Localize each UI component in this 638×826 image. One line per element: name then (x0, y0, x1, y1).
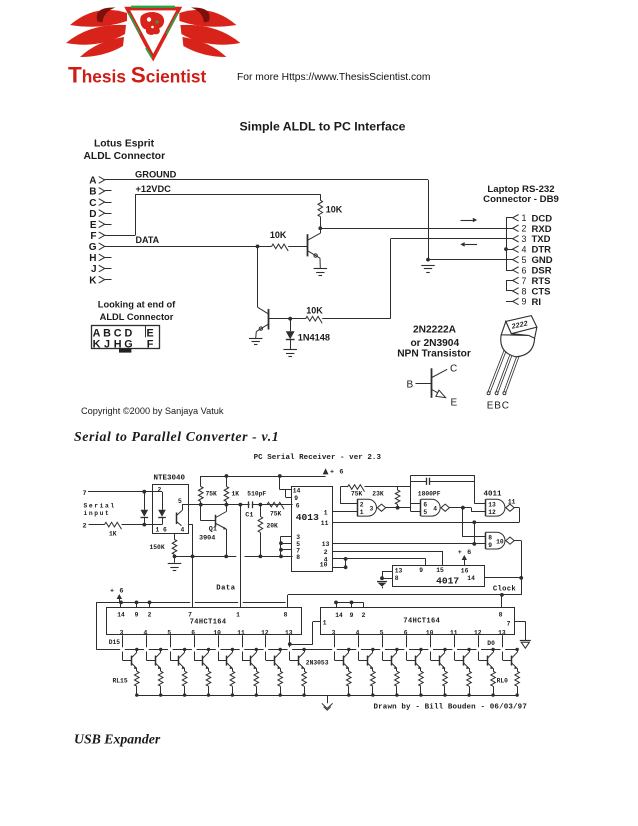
svg-text:Q1: Q1 (209, 526, 217, 534)
svg-text:9: 9 (294, 495, 298, 502)
svg-text:11: 11 (508, 498, 516, 505)
svg-text:B: B (494, 400, 501, 411)
svg-text:GROUND: GROUND (135, 169, 177, 179)
svg-text:PC Serial Receiver - ver 2.3: PC Serial Receiver - ver 2.3 (254, 454, 382, 462)
svg-text:5: 5 (423, 509, 427, 516)
svg-text:2: 2 (148, 611, 152, 618)
svg-text:12: 12 (474, 629, 482, 636)
svg-text:DCD: DCD (532, 213, 553, 224)
svg-text:10K: 10K (326, 204, 343, 214)
svg-text:1: 1 (323, 619, 327, 626)
svg-text:6: 6 (522, 265, 527, 275)
svg-text:1: 1 (324, 509, 328, 516)
svg-text:+ 6: + 6 (110, 587, 124, 595)
svg-text:2: 2 (522, 224, 527, 234)
svg-text:10: 10 (320, 562, 328, 569)
svg-text:D15: D15 (109, 639, 121, 646)
svg-text:4017: 4017 (436, 575, 459, 586)
svg-text:C: C (502, 400, 509, 411)
svg-text:B: B (407, 379, 414, 390)
svg-text:+ 6: + 6 (458, 549, 472, 557)
svg-text:2: 2 (158, 487, 162, 494)
svg-text:Drawn by - Bill Bouden - 06/03: Drawn by - Bill Bouden - 06/03/97 (374, 704, 527, 712)
svg-text:Copyright ©2000 by Sanjaya Vat: Copyright ©2000 by Sanjaya Vatuk (81, 406, 224, 416)
svg-text:Looking at end of: Looking at end of (98, 300, 176, 310)
svg-text:10: 10 (213, 629, 221, 636)
svg-text:K: K (93, 339, 101, 351)
svg-text:74HCT164: 74HCT164 (403, 618, 440, 626)
svg-text:For more Https://www.ThesisSci: For more Https://www.ThesisScientist.com (237, 72, 430, 83)
svg-text:K: K (89, 275, 97, 286)
svg-text:Simple ALDL to PC Interface: Simple ALDL to PC Interface (239, 120, 405, 134)
svg-text:RXD: RXD (532, 224, 552, 235)
svg-text:ALDL Connector: ALDL Connector (100, 312, 174, 322)
svg-text:12: 12 (488, 509, 496, 516)
svg-text:11: 11 (321, 520, 329, 527)
svg-text:4: 4 (356, 629, 360, 636)
svg-text:2N3053: 2N3053 (306, 659, 329, 666)
svg-text:3: 3 (296, 534, 300, 541)
svg-text:16: 16 (461, 567, 469, 574)
svg-text:Lotus Esprit: Lotus Esprit (94, 139, 155, 150)
svg-text:F: F (147, 339, 154, 351)
svg-text:RL0: RL0 (497, 677, 509, 684)
svg-text:2N2222A: 2N2222A (413, 325, 457, 336)
svg-text:2: 2 (360, 502, 364, 509)
svg-text:TXD: TXD (532, 234, 551, 245)
svg-text:75K: 75K (270, 511, 282, 518)
svg-text:13: 13 (322, 541, 330, 548)
svg-text:9: 9 (419, 567, 423, 574)
svg-text:+12VDC: +12VDC (136, 184, 172, 194)
svg-text:4011: 4011 (484, 490, 503, 498)
svg-text:RTS: RTS (532, 276, 551, 287)
svg-text:D: D (89, 209, 96, 220)
svg-text:11: 11 (450, 629, 458, 636)
svg-text:C: C (450, 363, 457, 374)
svg-text:1: 1 (522, 213, 527, 223)
svg-text:RL15: RL15 (113, 677, 128, 684)
svg-text:9: 9 (135, 611, 139, 618)
svg-text:510pF: 510pF (247, 491, 266, 498)
svg-text:4013: 4013 (296, 512, 319, 523)
svg-text:Connector - DB9: Connector - DB9 (483, 194, 559, 205)
svg-text:E: E (90, 220, 97, 231)
svg-text:9: 9 (488, 542, 492, 549)
svg-text:3: 3 (370, 506, 374, 513)
svg-text:13: 13 (488, 502, 496, 509)
svg-text:GND: GND (532, 255, 553, 266)
svg-text:13: 13 (285, 629, 293, 636)
svg-text:10: 10 (496, 539, 504, 546)
svg-text:10: 10 (426, 629, 434, 636)
svg-text:2: 2 (362, 612, 366, 619)
svg-text:15: 15 (436, 567, 444, 574)
svg-text:13: 13 (498, 629, 506, 636)
svg-text:9: 9 (522, 297, 527, 307)
svg-text:20K: 20K (267, 523, 279, 530)
svg-text:4: 4 (433, 506, 437, 513)
svg-text:10K: 10K (306, 306, 323, 316)
svg-text:Thesis Scientist: Thesis Scientist (68, 63, 207, 88)
svg-text:1N4148: 1N4148 (298, 333, 330, 343)
svg-text:74HCT164: 74HCT164 (190, 618, 227, 626)
svg-text:14: 14 (293, 487, 301, 494)
svg-text:8: 8 (499, 611, 503, 618)
svg-text:or 2N3904: or 2N3904 (410, 338, 459, 349)
svg-text:14: 14 (467, 575, 475, 582)
svg-text:6: 6 (296, 503, 300, 510)
svg-text:H: H (89, 253, 96, 264)
svg-text:ALDL Connector: ALDL Connector (83, 151, 165, 162)
svg-text:5: 5 (178, 498, 182, 505)
svg-text:3: 3 (120, 629, 124, 636)
svg-text:E: E (487, 400, 494, 411)
svg-text:E: E (451, 398, 458, 409)
svg-text:4: 4 (181, 527, 185, 534)
svg-text:G: G (89, 242, 97, 253)
svg-text:11: 11 (237, 629, 245, 636)
svg-text:7: 7 (188, 611, 192, 618)
svg-text:Clock: Clock (493, 586, 516, 594)
svg-text:7: 7 (522, 276, 527, 286)
svg-text:CTS: CTS (532, 286, 551, 297)
svg-text:7: 7 (507, 620, 511, 627)
svg-text:J: J (104, 339, 110, 351)
svg-text:3904: 3904 (199, 535, 215, 543)
svg-text:75K: 75K (351, 490, 363, 497)
svg-text:B: B (89, 187, 96, 198)
svg-text:1K: 1K (109, 530, 117, 537)
svg-text:8: 8 (488, 534, 492, 541)
svg-text:9: 9 (350, 612, 354, 619)
svg-text:6: 6 (404, 629, 408, 636)
svg-text:J: J (91, 264, 97, 275)
svg-text:8: 8 (522, 286, 527, 296)
svg-text:5: 5 (522, 255, 527, 265)
svg-text:75K: 75K (206, 491, 218, 498)
svg-text:1: 1 (236, 611, 240, 618)
svg-text:A: A (89, 176, 96, 187)
svg-text:1800PF: 1800PF (418, 490, 441, 497)
svg-text:NPN Transistor: NPN Transistor (397, 349, 471, 360)
svg-text:8: 8 (395, 575, 399, 582)
svg-text:1: 1 (360, 509, 364, 516)
svg-text:150K: 150K (150, 544, 165, 551)
svg-text:1 6: 1 6 (156, 527, 168, 534)
svg-text:8: 8 (284, 611, 288, 618)
svg-text:RI: RI (532, 297, 542, 308)
svg-text:1K: 1K (232, 491, 240, 498)
svg-text:C1: C1 (245, 512, 253, 520)
svg-text:+ 6: + 6 (330, 468, 344, 476)
svg-text:Serial to Parallel Converter -: Serial to Parallel Converter - v.1 (74, 429, 279, 444)
svg-text:5: 5 (380, 629, 384, 636)
svg-text:USB Expander: USB Expander (74, 732, 161, 747)
svg-text:2: 2 (83, 523, 87, 531)
svg-text:4: 4 (522, 244, 527, 254)
svg-text:23K: 23K (372, 490, 384, 497)
svg-text:DTR: DTR (532, 245, 552, 256)
svg-text:10K: 10K (270, 230, 287, 240)
svg-text:6: 6 (423, 502, 427, 509)
svg-text:C: C (89, 198, 96, 209)
svg-text:F: F (90, 231, 96, 242)
svg-text:3: 3 (332, 629, 336, 636)
svg-text:3: 3 (522, 234, 527, 244)
svg-text:D0: D0 (487, 640, 495, 647)
svg-text:8: 8 (296, 554, 300, 561)
svg-text:2: 2 (324, 549, 328, 556)
svg-text:NTE3040: NTE3040 (154, 475, 186, 483)
svg-text:14: 14 (117, 611, 125, 618)
svg-text:7: 7 (83, 490, 87, 498)
svg-text:13: 13 (395, 567, 403, 574)
svg-text:14: 14 (335, 612, 343, 619)
svg-text:Serial: Serial (84, 503, 116, 510)
svg-text:Data: Data (216, 584, 235, 592)
svg-text:DSR: DSR (532, 266, 552, 277)
svg-text:DATA: DATA (136, 235, 160, 245)
svg-text:input: input (84, 510, 111, 517)
